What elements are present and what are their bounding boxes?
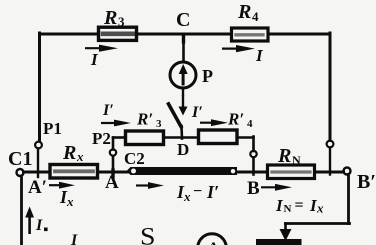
wire P2 to node A	[112, 156, 115, 172]
current arrow Ix under Rx	[49, 184, 63, 186]
svg-text:C: C	[176, 9, 190, 31]
wire right vertical from top-right corner down	[329, 33, 332, 141]
svg-text:=: =	[295, 197, 304, 214]
svg-text:A′: A′	[28, 177, 47, 198]
svg-text:R: R	[62, 142, 76, 164]
svg-text:R′: R′	[227, 110, 244, 129]
wire stub to main wire	[252, 158, 255, 175]
current arrow I (right, under R4)	[222, 47, 242, 49]
current arrow after B label	[261, 186, 279, 188]
resistor R'4	[199, 130, 238, 144]
terminal on right vertical	[327, 141, 334, 148]
heavy link bar C2 to RN	[127, 167, 238, 175]
terminal right end of link (white hole)	[231, 169, 235, 173]
resistor Rx	[50, 165, 98, 179]
svg-text:R′: R′	[136, 110, 153, 129]
svg-text:P2: P2	[92, 129, 111, 148]
svg-text:I′: I′	[191, 104, 203, 121]
node C junction tick	[182, 35, 185, 42]
current arrow above R'4	[200, 122, 215, 124]
svg-text:N: N	[284, 203, 292, 215]
svg-text:A: A	[208, 240, 219, 245]
wire right stub down from bridge row	[252, 137, 255, 152]
svg-text:C1: C1	[8, 148, 32, 170]
svg-text:D: D	[177, 140, 189, 159]
current arrow Ix-I' on link	[136, 184, 152, 186]
svg-text:I′: I′	[102, 102, 114, 119]
svg-text:4: 4	[252, 9, 259, 24]
wire right vertical lower to main wire	[329, 148, 331, 175]
terminal P2	[110, 149, 116, 155]
svg-text:−: −	[193, 183, 202, 200]
wire P bottom stub	[182, 89, 184, 96]
ammeter A circle (cut off at bottom)	[198, 234, 227, 245]
svg-text:B′: B′	[357, 171, 376, 193]
node A junction tick	[111, 170, 114, 177]
current arrow I' above R'3	[101, 122, 118, 124]
svg-text:R: R	[237, 1, 251, 23]
arrowhead on detector lead	[179, 107, 188, 116]
svg-text:I: I	[35, 217, 43, 234]
resistor R'3	[126, 131, 164, 145]
current arrow I (left, under R3)	[85, 47, 105, 49]
svg-text:P1: P1	[43, 119, 62, 138]
wire left vertical from top-left corner down to P1	[38, 33, 41, 141]
svg-text:R: R	[277, 145, 291, 167]
terminal C1	[17, 169, 24, 176]
svg-text:P: P	[202, 66, 213, 86]
rheostat heavy element bottom right	[256, 239, 302, 245]
svg-text:x: x	[316, 201, 324, 216]
svg-text:B: B	[247, 178, 260, 199]
wire left stub down from bridge row	[112, 138, 115, 150]
terminal B'	[344, 168, 351, 175]
wire top horizontal C row	[40, 33, 330, 36]
wire bridge row horizontal	[113, 136, 126, 139]
svg-text:A: A	[105, 172, 119, 193]
svg-text:3: 3	[118, 14, 125, 29]
svg-text:x: x	[76, 149, 84, 164]
terminal on R'4 stub	[250, 151, 256, 157]
terminal C2 (white hole in bar)	[131, 169, 136, 174]
svg-text:S: S	[140, 224, 156, 245]
switch blade diagonal	[169, 104, 182, 127]
wire main horizontal A row	[24, 171, 344, 174]
svg-text:I′: I′	[206, 182, 219, 202]
svg-text:3: 3	[156, 118, 162, 130]
svg-text:x: x	[183, 189, 191, 204]
current arrow Ia up	[25, 207, 34, 235]
arrows for currents	[49, 45, 292, 191]
svg-text:I: I	[70, 232, 78, 245]
svg-text:R: R	[103, 7, 117, 29]
switch wire with arrowhead down	[182, 97, 184, 109]
wire C down to galvanometer P	[182, 36, 185, 62]
svg-text:N: N	[292, 153, 301, 167]
svg-text:4: 4	[247, 118, 253, 130]
wire bottom right horizontal	[286, 222, 350, 225]
galvanometer needle arrow	[179, 64, 188, 86]
terminal P1	[35, 142, 42, 149]
wire B' down right side	[347, 175, 350, 224]
wire arrow down into standard element	[284, 224, 287, 231]
wire P1 to main wire	[37, 149, 39, 178]
wire C1 down left edge	[20, 176, 23, 245]
svg-text:x: x	[66, 194, 74, 209]
op: galvanometer P circle	[170, 62, 196, 88]
svg-text:C2: C2	[124, 149, 145, 168]
resistor R4	[232, 28, 269, 41]
resistor R3	[99, 27, 137, 40]
wire blade to node D	[180, 126, 183, 139]
resistor RN	[268, 165, 315, 179]
